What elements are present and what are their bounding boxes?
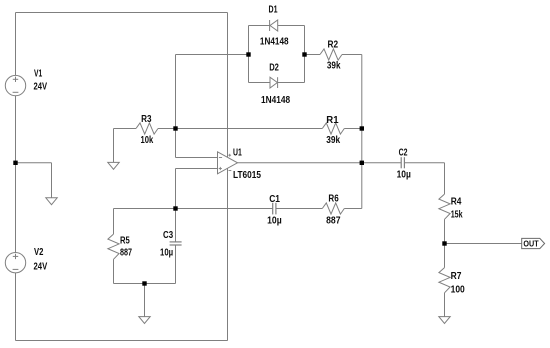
wire left rail middle bbox=[15, 96, 17, 253]
junction diode bridge right bbox=[302, 52, 306, 56]
ground (R5/C3) bbox=[139, 317, 150, 324]
resistor R7 bbox=[439, 268, 450, 293]
wire bottom row left / C1 left lead bbox=[114, 208, 273, 210]
wire R5-C3 bottom row bbox=[114, 283, 176, 285]
svg-text:D1: D1 bbox=[269, 5, 278, 16]
wire R4-R7 middle bbox=[444, 219, 446, 267]
diode D1 bbox=[270, 20, 278, 31]
wire bottom supply rail bbox=[16, 340, 228, 342]
voltage source V1 bbox=[5, 75, 25, 95]
svg-text:887: 887 bbox=[326, 215, 341, 226]
svg-text:10µ: 10µ bbox=[267, 216, 282, 227]
wire R5 bottom lead bbox=[113, 259, 115, 283]
capacitor C3 bbox=[170, 242, 182, 245]
wire R2 right lead bbox=[342, 54, 362, 56]
wire top supply rail bbox=[16, 12, 228, 14]
svg-text:V2: V2 bbox=[34, 247, 44, 258]
svg-text:R7: R7 bbox=[451, 271, 462, 282]
svg-text:10k: 10k bbox=[141, 135, 154, 146]
svg-text:39k: 39k bbox=[327, 60, 341, 71]
svg-text:1N4148: 1N4148 bbox=[261, 95, 290, 106]
wire C2 right lead bbox=[404, 162, 444, 164]
svg-text:1N4148: 1N4148 bbox=[260, 36, 289, 47]
wire R3 ground drop bbox=[113, 129, 115, 163]
svg-text:10µ: 10µ bbox=[160, 248, 173, 259]
svg-text:R4: R4 bbox=[451, 197, 462, 208]
junction diode bridge left bbox=[246, 52, 250, 56]
wire inverting-input net vertical bbox=[175, 55, 177, 158]
svg-text:887: 887 bbox=[120, 248, 132, 259]
wire feedback vertical bbox=[361, 55, 363, 209]
resistor R6 bbox=[322, 203, 344, 214]
wire left rail lower bbox=[15, 273, 17, 341]
wire V- power rail from op-amp bbox=[227, 168, 229, 340]
junction R4/R7/OUT bbox=[442, 241, 446, 245]
svg-text:24V: 24V bbox=[34, 262, 48, 273]
resistor R2 bbox=[320, 49, 342, 60]
svg-text:10µ: 10µ bbox=[397, 170, 411, 181]
svg-text:D2: D2 bbox=[269, 63, 279, 74]
junction bottom ground node bbox=[142, 281, 146, 285]
wire inverting input bbox=[176, 157, 218, 159]
wire C3 bottom lead bbox=[175, 245, 177, 284]
svg-text:39k: 39k bbox=[326, 135, 340, 146]
junction output / C2 bbox=[360, 161, 364, 165]
wire diode-bridge left lead bbox=[176, 54, 249, 56]
wire D2 left lead bbox=[249, 82, 271, 84]
wire R5 top lead bbox=[113, 209, 115, 235]
svg-text:LT6015: LT6015 bbox=[233, 170, 261, 181]
svg-text:U1: U1 bbox=[233, 148, 242, 159]
svg-text:C1: C1 bbox=[269, 194, 280, 205]
ground (mid rail) bbox=[46, 198, 57, 205]
wire D1 right lead bbox=[278, 25, 305, 27]
op-amp U1 LT6015 bbox=[218, 152, 238, 174]
svg-text:24V: 24V bbox=[34, 82, 48, 93]
wire non-inverting input bbox=[176, 168, 218, 170]
ground (R7) bbox=[439, 317, 450, 324]
svg-text:15k: 15k bbox=[451, 210, 463, 221]
junction inverting net / R3 bbox=[173, 126, 177, 130]
svg-text:V1: V1 bbox=[34, 69, 42, 80]
wire to OUT flag bbox=[445, 243, 522, 245]
diode D2 bbox=[270, 77, 278, 88]
wire diode loop right vertical bbox=[304, 26, 306, 83]
svg-text:R6: R6 bbox=[328, 194, 339, 205]
wire R4 top lead bbox=[444, 163, 446, 194]
wire V+ power rail to op-amp bbox=[227, 13, 229, 158]
wire mid ground stub horizontal bbox=[16, 162, 52, 164]
ground (R3) bbox=[108, 162, 119, 169]
junction R1 / feedback bbox=[360, 126, 364, 130]
junction mid supply/ground bbox=[13, 161, 17, 165]
wire R3 left lead bbox=[114, 128, 137, 130]
wire R6 left lead bbox=[276, 208, 322, 210]
wire D2 right lead bbox=[278, 82, 305, 84]
svg-text:R3: R3 bbox=[141, 114, 152, 125]
svg-text:R2: R2 bbox=[328, 39, 339, 50]
node OUT flag bbox=[522, 238, 545, 248]
svg-text:C3: C3 bbox=[163, 230, 173, 241]
resistor R4 bbox=[439, 194, 450, 219]
wire D1 left lead bbox=[249, 25, 270, 27]
voltage source V2 bbox=[5, 253, 25, 273]
svg-text:OUT: OUT bbox=[523, 239, 538, 248]
wire diode loop left vertical bbox=[248, 26, 250, 83]
resistor R1 bbox=[322, 123, 344, 134]
wire op-amp output row bbox=[238, 162, 402, 164]
svg-text:R5: R5 bbox=[120, 235, 130, 246]
wire left rail upper bbox=[15, 13, 17, 76]
svg-text:R1: R1 bbox=[326, 115, 339, 126]
junction non-inverting net / C1 row bbox=[173, 206, 177, 210]
capacitor C2 bbox=[401, 157, 404, 168]
wire R2 left lead bbox=[305, 54, 321, 56]
wire non-inverting net vertical / C3 top lead bbox=[175, 169, 177, 242]
wire R1 right lead bbox=[344, 128, 362, 130]
wire R6 right lead bbox=[344, 208, 362, 210]
svg-text:C2: C2 bbox=[399, 147, 408, 158]
resistor R5 bbox=[108, 234, 119, 259]
resistor R3 bbox=[136, 123, 158, 134]
svg-text:100: 100 bbox=[451, 285, 466, 296]
wire R7 ground lead bbox=[444, 293, 446, 317]
wire mid ground stub vertical bbox=[51, 163, 53, 198]
wire R3-R1 row bbox=[158, 128, 322, 130]
wire lower ground drop bbox=[144, 284, 146, 317]
capacitor C1 bbox=[273, 203, 276, 215]
